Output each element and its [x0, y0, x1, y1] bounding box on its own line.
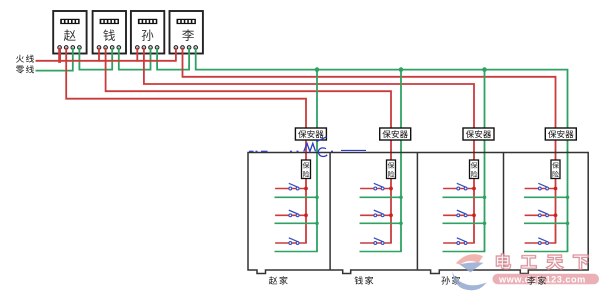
watermark banner www.dgjs123.com: [493, 274, 600, 285]
junction trunk/branch2: [389, 213, 393, 217]
wire branch 3 neutral: [360, 250, 402, 252]
protector U1 (保安器) house 1: [295, 128, 326, 140]
house 1 branch circuits: [275, 183, 319, 251]
junction neutral/branch2: [315, 222, 319, 226]
wire live trunk house 2: [390, 128, 392, 243]
wire branch 1 live: [525, 188, 556, 190]
junction neutral bus / house 1 drop: [315, 67, 320, 72]
wire branch 2 neutral: [360, 222, 402, 224]
wire neutral drop to house 1: [316, 70, 318, 252]
wire M2 pin1 stub to live bus: [98, 48, 100, 62]
label 零线 (neutral): [16, 65, 34, 73]
wire branch 1 live: [443, 188, 474, 190]
fuse F2 (保险): [387, 160, 396, 179]
wire branch 2 neutral: [524, 222, 568, 224]
terminal pins meter M3: [136, 46, 159, 50]
switch S3a: [457, 183, 466, 187]
wire branch 3 neutral: [275, 250, 318, 252]
wire branch 1 live: [275, 188, 306, 190]
wire M4 pin1 stub to live bus: [175, 48, 177, 62]
junction trunk/branch2: [554, 213, 558, 217]
wire branch 1 neutral: [360, 196, 402, 198]
wire branch 3 live: [525, 242, 556, 244]
label 赵家 house 1: [269, 276, 288, 284]
wire live trunk house 3: [473, 128, 475, 243]
watermark logo swirl: [452, 254, 486, 290]
meter M4 (李) body: [170, 11, 203, 54]
house 2 branch circuits: [360, 183, 403, 251]
switch S1a: [289, 183, 298, 187]
switch S1b: [289, 210, 298, 214]
label 孙家 house 3: [441, 276, 460, 284]
label 李家 house 4: [527, 276, 546, 284]
wire neutral link M1 pin4 to M2 pin3: [79, 48, 112, 70]
switch S4c: [538, 238, 547, 242]
junction neutral/branch2: [399, 222, 403, 226]
fuse F1 (保险): [302, 160, 311, 179]
wire branch 2 live: [360, 214, 391, 216]
wall house3/house4: [503, 153, 505, 271]
wall house2/house3: [416, 153, 418, 271]
wire M1 pin1 stub to live bus: [58, 48, 61, 63]
wire neutral link M2 pin4 to M3 pin3: [119, 48, 151, 70]
wire branch 3 live: [275, 242, 306, 244]
wire branch 2 neutral: [275, 222, 318, 224]
wire neutral link M3 pin4 to M4 pin3: [157, 48, 189, 70]
wire live feed M2 pin2 to house 2 protector: [106, 48, 391, 129]
junction neutral bus / house 3 drop: [482, 67, 487, 72]
switch S2a: [374, 183, 383, 187]
junction trunk/branch1: [389, 187, 393, 191]
wire branch 3 live: [360, 242, 391, 244]
switch S3c: [457, 238, 466, 242]
junction trunk/branch2: [472, 213, 476, 217]
wire live feed M3 pin2 to house 3 protector: [144, 48, 474, 129]
wire branch 1 neutral: [275, 196, 318, 198]
wire branch 2 live: [275, 214, 306, 216]
switch S2c: [374, 238, 383, 242]
house row boxes outline with feet: [248, 153, 588, 274]
wire neutral label segment to M1 pin3: [36, 48, 73, 71]
wire neutral drop to house 2: [400, 70, 402, 252]
junction neutral/branch1: [399, 196, 403, 200]
junction trunk/branch1: [304, 187, 308, 191]
switch S2b: [374, 210, 383, 214]
junction trunk/branch1: [472, 187, 476, 191]
wire branch 2 live: [525, 214, 556, 216]
watermark text 电工天下: [497, 255, 588, 269]
watermark blue letter C: [318, 148, 327, 157]
terminal pins meter M1: [58, 46, 81, 50]
meter M2 (钱) body: [93, 11, 126, 54]
switch S3b: [457, 210, 466, 214]
wire live trunk house 4: [555, 128, 557, 243]
watermark blue scribble dashes: [249, 149, 366, 152]
fuse F4 (保险): [551, 160, 560, 179]
label 火线 (live): [16, 55, 34, 63]
wire neutral drop to house 3: [484, 70, 486, 252]
terminal pins meter M2: [97, 46, 120, 50]
wire M3 pin1 stub to live bus: [136, 48, 138, 62]
wire live feed M4 pin2 to house 4 protector: [183, 48, 556, 129]
wire branch 1 neutral: [524, 196, 568, 198]
protector U4 (保安器) house 4: [545, 128, 576, 140]
junction neutral bus / house 2 drop: [399, 67, 404, 72]
junction neutral/branch1: [483, 196, 487, 200]
junction trunk/branch1: [554, 187, 558, 191]
junction trunk/branch2: [304, 213, 308, 217]
wire neutral drop inside house 4: [567, 150, 569, 252]
terminal pins meter M4: [174, 46, 197, 50]
junction neutral/branch2: [483, 222, 487, 226]
wire live feed M1 pin2 to house 1 protector: [66, 48, 306, 129]
wire branch 2 live: [443, 214, 474, 216]
fuse F3 (保险): [470, 160, 479, 179]
junction neutral/branch1: [566, 196, 570, 200]
watermark blue slash: [317, 137, 327, 142]
house 3 branch circuits: [443, 183, 487, 251]
wire branch 3 neutral: [524, 250, 568, 252]
meter M1 (赵) body: [53, 11, 86, 54]
wire branch 1 live: [360, 188, 391, 190]
wire branch 1 neutral: [443, 196, 485, 198]
wire neutral bus from M4 pin4 to house 4: [196, 48, 568, 153]
house 4 branch circuits: [524, 183, 569, 251]
junction neutral/branch2: [566, 222, 570, 226]
protector U2 (保安器) house 2: [380, 128, 411, 140]
label 钱家 house 2: [355, 276, 374, 284]
watermark blue letter W: [304, 143, 316, 151]
wire branch 3 neutral: [443, 250, 485, 252]
wire live trunk house 1: [305, 128, 307, 243]
wire branch 2 neutral: [443, 222, 485, 224]
meter M3 (孙) body: [131, 11, 164, 54]
wall house1/house2: [329, 153, 331, 271]
wire branch 3 live: [443, 242, 474, 244]
switch S4b: [538, 210, 547, 214]
wire live bus (火线): [36, 60, 176, 62]
junction neutral/branch1: [315, 196, 319, 200]
switch S1c: [289, 238, 298, 242]
protector U3 (保安器) house 3: [463, 128, 494, 140]
switch S4a: [538, 183, 547, 187]
